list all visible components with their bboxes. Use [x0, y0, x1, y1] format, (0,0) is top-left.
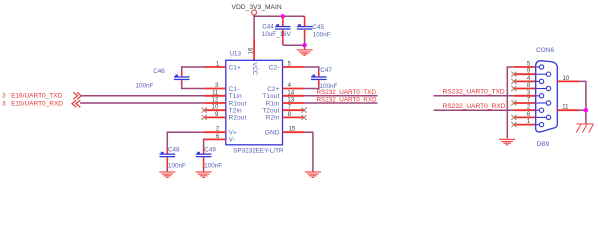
U13 right pin numbers	[287, 62, 296, 133]
svg-text:CON6: CON6	[536, 47, 554, 54]
svg-text:C48: C48	[168, 146, 180, 153]
svg-text:12: 12	[212, 98, 219, 104]
no-connect X CON6 pin 9	[511, 72, 516, 77]
wire CON6 pin 5 to ground	[507, 66, 514, 138]
svg-text:100nF: 100nF	[313, 31, 331, 38]
wire RS232_UART0_RXD to CON6 pin 2	[434, 109, 514, 111]
svg-text:3: 3	[2, 92, 6, 99]
svg-text:RS232_UART0_RXD: RS232_UART0_RXD	[317, 96, 378, 103]
no-connect X U13 pin 10	[202, 108, 207, 113]
no-connect X U13 pin 8	[302, 115, 307, 120]
off-page connector E16/UART0_TXD	[2, 92, 81, 99]
ground below CON6 pin 5	[499, 139, 515, 144]
svg-text:RS232_UART0_TXD: RS232_UART0_TXD	[443, 89, 505, 96]
CON6 pin 11 stub	[557, 109, 579, 111]
no-connect X CON6 pin 6	[511, 115, 516, 120]
svg-text:15: 15	[289, 127, 296, 133]
ground below C48	[159, 172, 175, 177]
U13 left pin stubs	[204, 67, 226, 139]
svg-text:11: 11	[212, 90, 219, 96]
capacitor C48	[160, 132, 205, 172]
no-connect X CON6 pin 7	[511, 100, 516, 105]
svg-text:R2out: R2out	[229, 115, 247, 122]
svg-text:V-: V-	[229, 137, 235, 144]
svg-text:16: 16	[249, 47, 255, 54]
svg-text:14: 14	[287, 90, 294, 96]
svg-text:GND: GND	[265, 130, 280, 137]
svg-text:VCC: VCC	[251, 62, 258, 75]
svg-text:U13: U13	[230, 50, 242, 57]
ground below C49	[196, 172, 212, 177]
pin 16 VCC stub	[253, 39, 255, 61]
U13 right pin stubs	[283, 67, 305, 132]
svg-text:3: 3	[2, 101, 6, 108]
svg-text:C1+: C1+	[229, 64, 242, 71]
svg-text:V+: V+	[229, 130, 237, 137]
CON6 pin 10 stub	[557, 80, 579, 82]
U13 left pin numbers	[212, 62, 220, 140]
node junction at C45 bottom	[302, 43, 306, 47]
svg-text:C46: C46	[153, 68, 165, 75]
svg-text:13: 13	[287, 98, 294, 104]
wire RS232_UART0_TXD to CON6 pin 3	[434, 95, 514, 97]
capacitor C45	[297, 16, 331, 45]
capacitor C46	[136, 66, 205, 89]
svg-text:100nF: 100nF	[136, 83, 154, 90]
svg-text:RS232_UART0_TXD: RS232_UART0_TXD	[317, 89, 377, 96]
wire VDD vertical to U13 pin 16	[253, 15, 255, 39]
svg-text:C2-: C2-	[269, 64, 280, 71]
svg-text:C44: C44	[262, 23, 274, 30]
CON6 pin circles left column	[536, 65, 543, 127]
svg-text:11: 11	[562, 105, 569, 111]
wire C44 to C45 bottom rail	[283, 44, 305, 46]
svg-text:C1-: C1-	[229, 86, 240, 93]
wire CON6 pin 11 to chassis	[579, 109, 586, 111]
svg-text:R1out: R1out	[229, 100, 247, 107]
wire RS232_UART0_TXD from U13 pin 14	[304, 95, 377, 97]
ground below C45	[297, 45, 313, 55]
wire UART0_TXD to U13 pin 11	[81, 95, 204, 97]
svg-text:T1out: T1out	[262, 93, 279, 100]
svg-text:VDD_3V3_MAIN: VDD_3V3_MAIN	[232, 4, 282, 11]
CON6 left pin stubs	[514, 67, 536, 125]
CON6 pin circles right column	[536, 72, 550, 120]
svg-text:C47: C47	[320, 67, 332, 74]
svg-text:10uF_16V: 10uF_16V	[262, 31, 292, 38]
capacitor C47	[304, 66, 337, 90]
svg-text:DB9: DB9	[537, 141, 550, 148]
svg-text:T2out: T2out	[262, 108, 279, 115]
svg-text:T1in: T1in	[229, 93, 242, 100]
svg-text:100nF: 100nF	[204, 162, 222, 169]
svg-text:10: 10	[212, 105, 219, 111]
CON6 left pin numbers	[527, 62, 531, 126]
capacitor C44	[262, 16, 292, 45]
svg-text:RS232_UART0_RXD: RS232_UART0_RXD	[443, 103, 506, 110]
no-connect X CON6 pin 4	[511, 79, 516, 84]
op-amp U13 body SP3232	[226, 47, 284, 154]
chassis ground right	[576, 124, 593, 133]
svg-text:R1in: R1in	[266, 100, 280, 107]
power symbol VDD_3V3_MAIN	[232, 4, 282, 15]
svg-text:10: 10	[562, 76, 569, 82]
no-connect X CON6 pin 8	[511, 86, 516, 91]
svg-text:T2in: T2in	[229, 108, 242, 115]
wire RS232_UART0_RXD from U13 pin 13	[304, 102, 377, 104]
connector CON6 DB9 body	[536, 61, 558, 132]
no-connect X U13 pin 9	[202, 115, 207, 120]
capacitor C49	[196, 139, 223, 172]
ground below U13 pin 15	[305, 172, 321, 177]
svg-text:C45: C45	[312, 24, 324, 31]
U13 left pin names	[229, 64, 247, 143]
node junction pins 10/11	[584, 108, 588, 112]
svg-text:C2+: C2+	[267, 86, 280, 93]
svg-text:R2in: R2in	[266, 115, 280, 122]
wire UART0_RXD to U13 pin 12	[80, 102, 204, 104]
wire CON6 pin 10 to chassis	[579, 81, 586, 124]
wire U13 GND pin 15	[304, 132, 313, 172]
svg-text:100nF: 100nF	[168, 162, 186, 169]
svg-text:E16/UART0_TXD: E16/UART0_TXD	[11, 92, 62, 99]
svg-text:SP3232EEY-L/TR: SP3232EEY-L/TR	[233, 147, 284, 154]
U13 right pin names	[262, 64, 280, 136]
node junction C44 tap	[281, 14, 285, 18]
no-connect X U13 pin 7	[302, 108, 307, 113]
no-connect X CON6 pin 1	[511, 122, 516, 127]
wire VDD horizontal rail	[253, 15, 304, 17]
svg-text:C49: C49	[204, 146, 216, 153]
off-page connector E15/UART0_RXD	[2, 100, 80, 107]
svg-text:E15/UART0_RXD: E15/UART0_RXD	[11, 101, 63, 108]
